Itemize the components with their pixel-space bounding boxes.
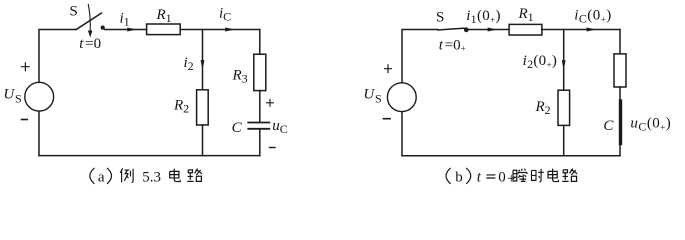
resistor R3 (a) <box>254 54 266 90</box>
current arrow i1(0+) (b) <box>488 28 498 32</box>
wire: middle branch lower (a) <box>202 125 204 156</box>
resistor R1 (b) <box>509 24 542 35</box>
caption (b) glyph 瞬 <box>513 169 527 182</box>
svg-text:i2: i2 <box>184 55 194 73</box>
current arrow i2(0+) (b) <box>562 60 566 70</box>
wire: top-left segment (a) <box>39 30 77 83</box>
switch S blade (a) <box>77 13 102 29</box>
label + of source (b) <box>385 65 392 73</box>
wire: capacitor to bottom (a) <box>259 129 261 156</box>
caption (a) fullwidth left paren <box>90 168 95 184</box>
svg-text:C: C <box>232 120 243 136</box>
wire: bottom (b) <box>402 155 620 157</box>
svg-text:R2: R2 <box>535 99 551 117</box>
svg-text:US: US <box>3 87 21 106</box>
wire: dot to R1 (a) <box>105 29 147 31</box>
caption (a) fullwidth right paren <box>107 168 112 184</box>
wire: bottom (a) <box>39 155 260 157</box>
svg-text:i1(0+): i1(0+) <box>466 8 501 26</box>
svg-text:t=0+: t=0+ <box>439 37 466 53</box>
capacitor C charged bar (b) <box>619 101 622 144</box>
wire: middle branch lower (b) <box>563 125 565 155</box>
switch S actuation arrow (a) <box>88 5 90 32</box>
svg-text:R2: R2 <box>173 98 189 116</box>
caption (b) fullwidth right paren <box>466 168 471 184</box>
wire: middle branch upper (b) <box>563 30 565 91</box>
svg-text:S: S <box>70 4 78 20</box>
caption (b) fullwidth left paren <box>446 168 451 184</box>
wire: right branch upper (a) <box>259 30 261 55</box>
svg-text:i1: i1 <box>120 10 130 28</box>
label - of source (a) <box>22 119 28 121</box>
svg-text:0: 0 <box>498 169 506 185</box>
voltage source US circle (b) <box>387 83 416 112</box>
caption (a) glyph 路 <box>187 169 201 182</box>
label - of uC (a) <box>270 147 276 149</box>
svg-text:b: b <box>455 169 463 185</box>
capacitor C top plate (a) <box>248 122 269 124</box>
wire: dot to R1 (b) <box>469 29 509 31</box>
caption (a) glyph 电 <box>170 169 181 182</box>
label - of source (b) <box>384 118 391 120</box>
caption (b) glyph 时 <box>531 169 543 182</box>
svg-text:R1: R1 <box>156 7 172 25</box>
svg-text:uC(0+): uC(0+) <box>630 116 671 134</box>
svg-text:t=0: t=0 <box>79 36 101 52</box>
wire: resistor to capacitor bar (b) <box>619 87 621 101</box>
caption (a) glyph 例 <box>120 168 133 182</box>
caption (b) glyph 路 <box>562 169 577 182</box>
wire: right branch upper (b) <box>619 30 621 54</box>
switch blade closed (b) <box>438 28 464 30</box>
svg-text:iC(0+): iC(0+) <box>574 8 611 26</box>
resistor R3 unlabeled (b) <box>614 54 626 87</box>
wire: left lower (b) <box>401 112 403 156</box>
svg-text:5.3: 5.3 <box>142 169 161 185</box>
wire: left lower (a) <box>38 112 40 156</box>
wire: bar to bottom (b) <box>619 144 621 156</box>
svg-text:S: S <box>436 10 444 26</box>
svg-text:uC: uC <box>272 118 288 136</box>
caption (b) equals sign <box>486 175 495 178</box>
capacitor C bottom plate (a) <box>248 128 269 130</box>
svg-text:R1: R1 <box>518 6 534 24</box>
current arrow iC (a) <box>225 28 235 32</box>
svg-text:C: C <box>603 118 614 134</box>
current arrow i2 (a) <box>201 60 205 70</box>
resistor R1 (a) <box>147 24 181 35</box>
caption (b) glyph 电 <box>548 169 559 182</box>
label + of uC (a) <box>267 99 274 106</box>
wire: R1 to right corner (a) <box>180 29 260 31</box>
wire: top-left segment (b) <box>402 30 438 83</box>
svg-text:iC: iC <box>219 6 231 24</box>
wire: R3 to capacitor (a) <box>259 91 261 122</box>
svg-text:t: t <box>477 169 482 185</box>
svg-text:i2(0+): i2(0+) <box>523 53 558 71</box>
switch S actuation arrowhead (a) <box>88 31 93 38</box>
voltage source US circle (a) <box>25 82 54 111</box>
resistor R2 (b) <box>558 90 570 125</box>
svg-text:US: US <box>363 87 381 106</box>
svg-text:R3: R3 <box>232 68 248 86</box>
switch S right terminal dot (a) <box>101 26 105 30</box>
current arrow iC(0+) (b) <box>587 28 597 32</box>
wire: middle branch upper (a) <box>202 30 204 90</box>
switch right terminal dot (b) <box>464 27 469 32</box>
label + of source (a) <box>22 63 30 71</box>
resistor R2 (a) <box>197 90 209 125</box>
current arrow i1 (a) <box>127 28 137 32</box>
wire: R1 to right corner (b) <box>542 29 620 31</box>
svg-text:a: a <box>98 169 105 185</box>
